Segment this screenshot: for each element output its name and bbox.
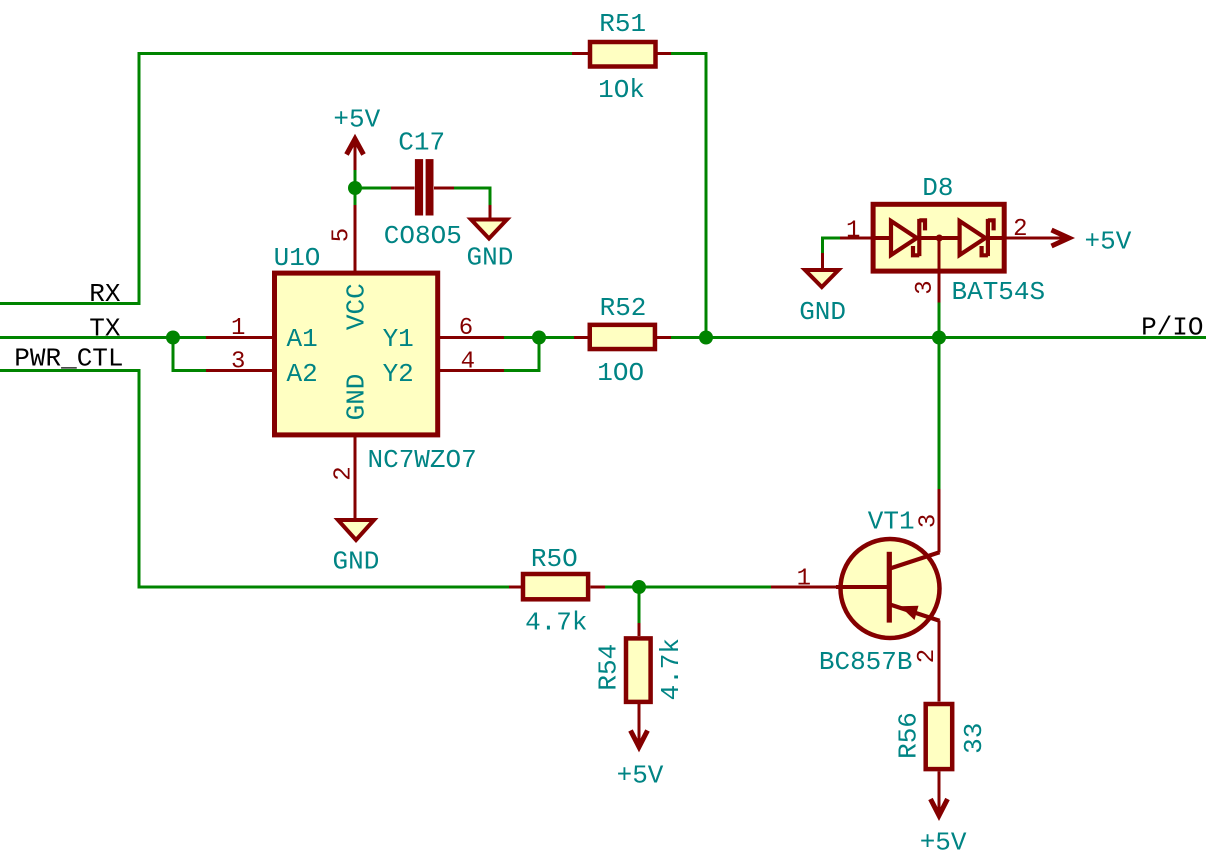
wire C17 to GND — [454, 188, 490, 205]
diode D8 second cathode top hook — [988, 220, 994, 230]
wire TX junction down to U10 pin3 — [173, 338, 206, 371]
resistor R54 — [626, 638, 651, 702]
svg-text:3: 3 — [231, 348, 245, 375]
junction Y1-Y2 node — [532, 331, 546, 345]
svg-text:R56: R56 — [893, 712, 923, 759]
junction VCC node — [348, 181, 362, 195]
pin R52.2 — [656, 336, 671, 339]
svg-text:1: 1 — [231, 315, 245, 342]
svg-text:U1O: U1O — [274, 243, 321, 273]
junction P/IO-D8-VT1 node — [932, 331, 946, 345]
svg-text:BC857B: BC857B — [819, 647, 913, 677]
pin C17.1 — [391, 187, 415, 190]
svg-text:Y2: Y2 — [383, 359, 414, 389]
transistor VT1 base bar — [887, 552, 892, 623]
svg-text:RX: RX — [89, 279, 121, 309]
resistor R50 — [523, 574, 588, 599]
svg-text:VCC: VCC — [342, 283, 372, 330]
ground symbol near C17 — [471, 220, 507, 239]
wire R52 right to main junction — [670, 336, 706, 339]
wire P/IO junction down to VT1 collector — [938, 338, 941, 490]
junction R51-R52 node — [699, 331, 713, 345]
pin R56.2 stem — [938, 771, 941, 815]
wire R51 right to main junction — [671, 54, 706, 338]
wire D8 pin3 down to P/IO — [938, 303, 941, 338]
pin D8.1 — [840, 237, 871, 240]
junction base-R54 node — [632, 580, 646, 594]
diode D8 first cathode bottom hook — [913, 246, 919, 255]
svg-text:NC7WZO7: NC7WZO7 — [368, 445, 477, 475]
svg-text:R54: R54 — [594, 644, 624, 691]
resistor R51 — [590, 42, 656, 67]
pin U10.4 — [440, 369, 504, 372]
svg-text:+5V: +5V — [920, 828, 967, 858]
pin R52.1 — [574, 336, 590, 339]
pin U10.2 — [354, 437, 357, 519]
capacitor C17 left plate — [415, 159, 423, 215]
diode D8 center tap dot — [936, 235, 943, 242]
svg-text:1: 1 — [797, 566, 811, 593]
svg-text:+5V: +5V — [617, 761, 664, 791]
op-amp buffer U10 body — [275, 273, 438, 435]
diode D8 first cathode bar — [917, 219, 921, 256]
wire node P/IO main horizontal — [706, 336, 1206, 339]
svg-text:5: 5 — [329, 228, 356, 242]
diode D8 body — [873, 204, 1004, 271]
svg-text:4: 4 — [461, 348, 475, 375]
svg-text:GND: GND — [332, 547, 379, 577]
svg-text:3: 3 — [916, 514, 943, 528]
svg-text:4.7k: 4.7k — [656, 638, 686, 700]
svg-text:33: 33 — [959, 723, 989, 754]
svg-text:2: 2 — [331, 466, 358, 480]
diode D8 second cathode bottom hook — [982, 246, 988, 255]
wire stem GND D8 — [821, 253, 824, 270]
pin R51.2 — [658, 52, 672, 55]
svg-text:+5V: +5V — [333, 105, 380, 135]
transistor VT1 internal base lead — [836, 585, 890, 589]
svg-text:BAT54S: BAT54S — [952, 277, 1046, 307]
svg-text:VT1: VT1 — [868, 507, 915, 537]
pin D8.3 — [938, 240, 941, 303]
pin U10.6 — [440, 336, 504, 339]
capacitor C17 right plate — [426, 159, 434, 215]
diode D8 internal bus line — [871, 236, 1007, 240]
pin VT1.3 vertical — [938, 489, 941, 553]
transistor VT1 collector line — [890, 552, 940, 568]
svg-text:Y1: Y1 — [383, 324, 414, 354]
pin R50.2 — [591, 586, 606, 589]
svg-text:2: 2 — [914, 649, 941, 663]
svg-text:P/IO: P/IO — [1141, 313, 1203, 343]
svg-text:1Ok: 1Ok — [598, 75, 645, 105]
svg-text:2: 2 — [1013, 216, 1027, 243]
pin VT1.2 down to R56 — [938, 621, 941, 702]
svg-text:3: 3 — [912, 280, 939, 294]
resistor R56 — [926, 704, 953, 769]
diode D8 second cathode bar — [986, 219, 990, 256]
svg-text:A1: A1 — [287, 324, 318, 354]
power symbol +5V arrow below R56 — [931, 799, 948, 816]
diode D8 first cathode top hook — [919, 220, 925, 230]
wire base junction down to R54 — [638, 587, 641, 623]
svg-text:D8: D8 — [922, 173, 953, 203]
wire U10 Y2 up to Y1 junction — [504, 338, 539, 371]
pin R54.2 stem — [638, 704, 641, 747]
pin C17.2 — [434, 187, 454, 190]
wire U10 Y1 to R52 — [504, 336, 575, 339]
power symbol +5V arrow top — [347, 139, 364, 155]
svg-text:R51: R51 — [599, 9, 646, 39]
wire stem GND C17 — [489, 205, 492, 220]
svg-text:R52: R52 — [600, 293, 647, 323]
pin R50.1 — [509, 586, 521, 589]
power symbol stem +5V top — [354, 139, 357, 170]
power symbol +5V arrow right of D8 — [1052, 230, 1070, 246]
svg-text:R5O: R5O — [531, 544, 578, 574]
svg-text:1OO: 1OO — [597, 358, 644, 388]
pin U10.1 — [206, 336, 272, 339]
wire VCC junction to C17 — [355, 187, 391, 190]
svg-text:4.7k: 4.7k — [525, 608, 587, 638]
junction TX node — [166, 331, 180, 345]
svg-text:6: 6 — [459, 315, 473, 342]
svg-text:CO8O5: CO8O5 — [384, 221, 462, 251]
transistor VT1 body circle — [841, 539, 940, 638]
svg-text:TX: TX — [89, 314, 121, 344]
diode D8 first schottky triangle — [891, 221, 917, 255]
wire RX net to R51 — [0, 54, 572, 304]
svg-text:GND: GND — [342, 374, 372, 421]
svg-text:+5V: +5V — [1085, 227, 1132, 257]
pin VT1.1 base lead — [771, 586, 887, 589]
ground symbol near D8 — [805, 270, 839, 287]
wire TX net to U10 pin1 — [0, 336, 206, 339]
svg-text:C17: C17 — [398, 128, 445, 158]
svg-text:GND: GND — [799, 297, 846, 327]
svg-text:PWR_CTL: PWR_CTL — [14, 344, 123, 374]
pin R51.1 — [572, 52, 588, 55]
wire PWR_CTL net down to R50 — [0, 371, 509, 588]
wire D8 pin1 to GND — [823, 238, 841, 253]
diode D8 second schottky triangle — [960, 221, 986, 255]
svg-text:1: 1 — [846, 217, 860, 244]
resistor R52 — [590, 325, 655, 349]
wire R50 right to VT1 base — [605, 586, 771, 589]
wire +5V to U10 VCC pin — [354, 170, 357, 205]
pin U10.3 — [206, 369, 272, 372]
pin U10.5 — [354, 205, 357, 271]
pin R54.1 — [638, 623, 641, 636]
pin D8.2 to +5V arrow — [1007, 237, 1070, 240]
power symbol +5V arrow below R54 — [631, 731, 648, 747]
transistor VT1 emitter arrow — [900, 606, 919, 620]
transistor VT1 emitter line — [890, 605, 940, 621]
svg-text:GND: GND — [466, 243, 513, 273]
pin D8.3 internal segment — [938, 238, 941, 273]
ground symbol below U10 — [338, 520, 374, 540]
svg-text:A2: A2 — [287, 359, 318, 389]
